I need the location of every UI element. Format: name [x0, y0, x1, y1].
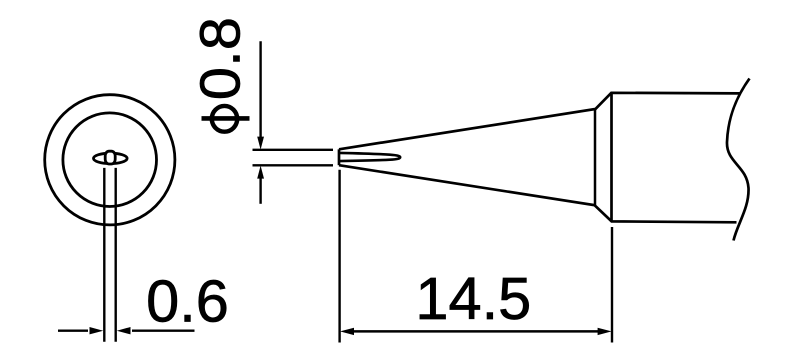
- 14.5 dimension line: [352, 330, 599, 333]
- chisel cross-section center boss: [105, 151, 115, 164]
- 0.6 dimension left leader with arrow: [58, 330, 88, 332]
- 14.5 right arrow: [598, 328, 612, 335]
- body break squiggle: [727, 79, 750, 241]
- chisel flat lens on tip: [339, 153, 400, 161]
- 14.5 left arrow: [340, 328, 354, 335]
- phi symbol stem: [202, 116, 250, 121]
- phi 0.8 lower dimension line with up arrow: [259, 176, 261, 204]
- 0.6 dimension right leader with arrow: [132, 330, 195, 332]
- phi symbol ring: [212, 106, 237, 132]
- web left extension line: [103, 168, 105, 342]
- side view cone bottom outline: [339, 165, 737, 222]
- svg-text:0.6: 0.6: [146, 268, 229, 335]
- side view cone top outline: [339, 93, 740, 150]
- cone/bevel junction vertical line: [594, 109, 597, 205]
- 14.5 right extension line: [611, 227, 613, 343]
- phi 0.8 top extension line: [253, 149, 334, 151]
- phi 0.8 upper dimension line with down arrow: [259, 41, 261, 139]
- side view tip flat face: [338, 149, 341, 165]
- phi 0.8 bottom extension line: [253, 164, 334, 166]
- svg-text:0.8: 0.8: [189, 17, 252, 100]
- 14.5 left extension line: [338, 170, 340, 343]
- web right extension line: [114, 168, 116, 342]
- svg-text:14.5: 14.5: [415, 265, 531, 332]
- tip front view inner circle: [63, 113, 157, 207]
- chisel cross-section ellipse: [94, 153, 128, 163]
- tip front view outer circle: [45, 95, 175, 225]
- body left edge vertical line: [610, 93, 613, 222]
